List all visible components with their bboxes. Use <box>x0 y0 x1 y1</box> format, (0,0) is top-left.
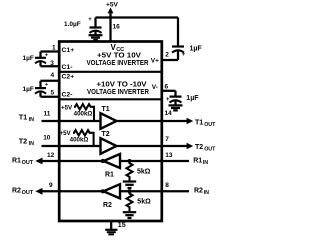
svg-text:T1: T1 <box>19 113 28 122</box>
capacitor C1 1uF <box>35 52 59 67</box>
svg-text:12: 12 <box>47 152 55 159</box>
svg-text:IN: IN <box>203 160 208 166</box>
wire V+ rail drop <box>177 18 179 47</box>
svg-text:+5V TO 10V: +5V TO 10V <box>97 50 141 59</box>
svg-text:5kΩ: 5kΩ <box>137 199 151 206</box>
svg-text:13: 13 <box>165 152 173 159</box>
svg-text:T1: T1 <box>102 106 110 113</box>
divider after +5V to 10V section <box>60 71 162 73</box>
junction dot R2 tip <box>101 189 105 193</box>
svg-text:7: 7 <box>165 136 169 143</box>
wire R2IN <box>120 190 189 192</box>
svg-text:1µF: 1µF <box>23 86 34 93</box>
T1OUT label <box>195 119 216 128</box>
junction dot R1 resistor <box>128 159 132 163</box>
svg-text:T2: T2 <box>102 131 110 138</box>
ground under R2 resistor <box>123 212 136 218</box>
wire T1 output <box>117 120 188 122</box>
svg-text:C2+: C2+ <box>62 74 75 81</box>
svg-text:OUT: OUT <box>22 190 34 196</box>
svg-text:R1: R1 <box>193 158 202 165</box>
junction dot R1 tip <box>101 159 105 163</box>
wire top rail <box>96 16 179 18</box>
ground under C5 <box>89 35 103 40</box>
capacitor C5 1.0uF <box>90 18 102 36</box>
svg-text:C1-: C1- <box>62 64 73 71</box>
R1IN label <box>193 158 208 167</box>
wire R2 output <box>42 190 103 192</box>
resistor 5k R1 <box>127 161 133 181</box>
wire pin16 drop <box>109 18 111 42</box>
arrow T2OUT <box>187 143 194 150</box>
wire R1 output <box>42 160 103 162</box>
svg-text:OUT: OUT <box>204 147 216 153</box>
svg-text:R1: R1 <box>105 172 114 179</box>
svg-text:11: 11 <box>44 110 51 117</box>
svg-text:+: + <box>88 17 92 23</box>
svg-text:1µF: 1µF <box>190 45 203 52</box>
T2OUT label <box>195 144 216 153</box>
svg-text:+5V: +5V <box>61 105 73 112</box>
svg-text:VOLTAGE INVERTER: VOLTAGE INVERTER <box>87 60 149 67</box>
wire R1IN <box>120 160 189 162</box>
svg-text:C2-: C2- <box>62 91 73 98</box>
voltage inverter block text <box>87 79 149 96</box>
pin 15 stub <box>110 221 112 229</box>
op-amp R2 <box>104 184 121 198</box>
svg-text:T1: T1 <box>195 119 203 126</box>
svg-text:+: + <box>45 52 49 58</box>
resistor 400k T1 <box>74 104 94 121</box>
svg-text:IN: IN <box>204 190 209 196</box>
svg-text:+: + <box>182 52 186 58</box>
divider after +10V to -10V section <box>60 98 162 100</box>
resistor 5k R2 <box>127 191 133 212</box>
op-amp T1 <box>101 113 117 129</box>
svg-text:IN: IN <box>29 141 34 147</box>
svg-text:5: 5 <box>51 89 55 96</box>
ground under C4 <box>169 105 183 110</box>
svg-text:T2: T2 <box>195 144 203 151</box>
svg-text:1.0µF: 1.0µF <box>64 21 81 28</box>
svg-text:+: + <box>45 82 49 88</box>
svg-text:VOLTAGE INVERTER: VOLTAGE INVERTER <box>87 89 149 96</box>
svg-text:+5V: +5V <box>106 2 119 9</box>
svg-text:IN: IN <box>29 117 34 123</box>
svg-text:T2: T2 <box>19 137 28 146</box>
node VCC label <box>111 43 125 53</box>
IC outline U1 <box>59 42 162 222</box>
arrow T1OUT <box>187 118 194 125</box>
R1OUT label <box>12 158 34 167</box>
op-amp R1 <box>104 154 121 168</box>
svg-text:+: + <box>166 97 170 103</box>
svg-text:9: 9 <box>49 182 53 189</box>
arrow R2OUT <box>35 188 42 195</box>
svg-text:15: 15 <box>118 222 126 229</box>
T1IN label <box>19 113 34 123</box>
svg-text:8: 8 <box>165 182 169 189</box>
svg-text:10: 10 <box>43 135 51 142</box>
R2IN label <box>194 188 209 197</box>
svg-text:1: 1 <box>52 45 56 52</box>
svg-text:16: 16 <box>113 24 121 31</box>
arrow R1OUT <box>35 158 42 165</box>
ground under R1 resistor <box>123 182 136 189</box>
svg-text:1µF: 1µF <box>23 55 34 62</box>
svg-text:5kΩ: 5kΩ <box>137 168 151 175</box>
voltage doubler block text <box>87 50 149 67</box>
svg-text:V+: V+ <box>151 58 159 65</box>
svg-text:3: 3 <box>50 60 54 67</box>
capacitor C2 1uF <box>35 81 59 97</box>
+5V supply arrow <box>108 7 114 18</box>
svg-text:V-: V- <box>152 84 158 91</box>
capacitor C3 1uF at V+ <box>162 47 184 61</box>
resistor 400k T2 <box>73 130 94 146</box>
op-amp T2 <box>101 138 117 154</box>
ground pin 15 <box>105 230 117 235</box>
svg-text:C1+: C1+ <box>62 47 75 54</box>
wire T1IN <box>42 120 101 122</box>
pin 6 stub <box>162 91 176 96</box>
svg-text:1µF: 1µF <box>186 95 199 102</box>
T2IN label <box>19 137 34 147</box>
svg-text:R2: R2 <box>12 188 21 195</box>
svg-text:R2: R2 <box>103 202 112 209</box>
junction dot R2 resistor <box>128 189 132 193</box>
svg-text:2: 2 <box>165 52 169 59</box>
svg-text:6: 6 <box>165 83 169 90</box>
svg-text:+10V TO -10V: +10V TO -10V <box>97 79 147 88</box>
svg-text:400kΩ: 400kΩ <box>74 111 93 118</box>
svg-text:4: 4 <box>51 72 55 79</box>
svg-text:R1: R1 <box>12 158 21 165</box>
svg-text:OUT: OUT <box>204 122 216 128</box>
svg-text:400kΩ: 400kΩ <box>70 137 89 144</box>
R2OUT label <box>12 188 34 197</box>
wire T2IN <box>42 145 101 147</box>
wire T2 output <box>117 145 188 147</box>
svg-text:14: 14 <box>165 110 173 117</box>
svg-text:R2: R2 <box>194 188 203 195</box>
svg-text:OUT: OUT <box>22 160 34 166</box>
capacitor C4 1uF at V- <box>170 97 182 105</box>
